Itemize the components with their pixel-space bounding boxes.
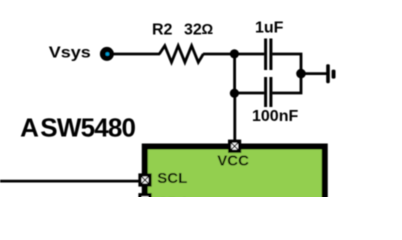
svg-text:SW5480: SW5480 (40, 112, 135, 142)
pin VCC (230, 141, 240, 151)
svg-text:R2: R2 (152, 22, 173, 39)
wire node B to VCC pin (233, 93, 236, 140)
svg-text:1uF: 1uF (255, 20, 284, 37)
pin SCL (140, 175, 150, 185)
wire node A to C1 left plate (235, 53, 265, 56)
wire C1 right plate to right rail (272, 54, 301, 74)
resistor R2 (159, 46, 203, 63)
wire SCL from left edge (0, 180, 139, 183)
svg-text:VCC: VCC (217, 153, 249, 170)
wire node B to C2 left plate (235, 92, 265, 95)
ground (326, 64, 335, 83)
svg-text:32: 32 (184, 22, 202, 39)
wire node A down to node B (233, 54, 236, 93)
IC U1 ASW5480 body (145, 147, 325, 217)
node B junction (230, 89, 239, 98)
node C junction (296, 69, 306, 79)
wire Vsys node to R2 (112, 53, 160, 56)
svg-text:100nF: 100nF (252, 108, 298, 125)
svg-text:SDA: SDA (158, 195, 190, 197)
wire node C to ground (301, 72, 327, 75)
svg-text:Vsys: Vsys (49, 43, 91, 61)
svg-text:Ω: Ω (202, 22, 214, 38)
capacitor C1 1uF (266, 39, 271, 71)
wire R2 to node A (203, 53, 234, 56)
capacitor C2 100nF (266, 77, 271, 107)
wire C2 right plate to right rail (272, 74, 301, 94)
node Vsys terminal (100, 47, 114, 61)
node A junction (230, 49, 239, 58)
svg-text:A: A (20, 112, 39, 142)
pin SDA (140, 195, 150, 205)
svg-text:SCL: SCL (157, 170, 187, 187)
